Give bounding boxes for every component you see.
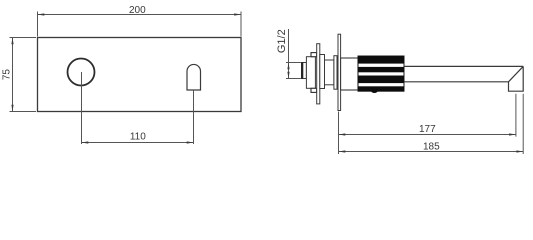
spout arch (187, 64, 201, 90)
dim G1/2: dimension line (288, 29, 290, 79)
spout tube and tip (404, 66, 523, 91)
dim 177: arrow left (339, 133, 346, 135)
dim 185: arrow left (339, 150, 346, 152)
dim 110: arrow left (82, 141, 89, 143)
dim 177: dimension line (339, 134, 516, 136)
svg-text:185: 185 (423, 141, 440, 152)
wall band (338, 34, 341, 110)
svg-text:177: 177 (419, 124, 436, 135)
dim 110: extension line from circle center (81, 72, 83, 144)
dim 75: dimension line (12, 38, 14, 112)
dim 185: extension below tip (522, 94, 524, 154)
dim 200: arrow left (38, 13, 45, 15)
handle circle (68, 59, 95, 86)
dim 185: dimension line (339, 151, 524, 153)
cylinder between collar and flange (325, 60, 334, 85)
collar ring (320, 55, 325, 89)
nub under striped block (371, 89, 378, 93)
dim 200: arrow right (234, 13, 241, 15)
dim 185: arrow right (516, 150, 523, 152)
dim 200: extension lines (37, 12, 39, 37)
svg-text:G1/2: G1/2 (276, 29, 288, 53)
back flange at wall (334, 56, 337, 89)
dim G1/2: arrow top (287, 63, 289, 70)
svg-text:200: 200 (129, 5, 146, 16)
dim 75: arrow top (11, 38, 13, 45)
dim 75: arrow bottom (11, 105, 13, 112)
mounting plate (behind wall) (317, 44, 320, 104)
nipple thick left edge (301, 62, 303, 78)
body top nub (311, 53, 317, 57)
valve body (306, 57, 315, 89)
dim 200: dimension line (38, 14, 242, 16)
svg-text:110: 110 (130, 132, 146, 143)
dim 110: arrow right (187, 141, 194, 143)
dim 177/185: extension from wall face (338, 112, 340, 155)
dim G1/2: extension lines (286, 62, 301, 64)
svg-text:75: 75 (2, 69, 13, 81)
dim G1/2: arrow bottom (287, 72, 289, 79)
dim 110: extension line from arch center (193, 91, 195, 144)
front body (white cylinder) (341, 58, 358, 90)
dim 75: extension lines (10, 37, 37, 39)
dim 177: extension below outlet (515, 94, 517, 137)
body bottom nub (311, 88, 317, 92)
dim 110: dimension line (82, 142, 194, 144)
inlet nipple G1/2 (302, 63, 307, 79)
wall plate rectangle (38, 38, 242, 112)
dim 177: arrow right (509, 133, 516, 135)
striped handle block (358, 56, 404, 91)
